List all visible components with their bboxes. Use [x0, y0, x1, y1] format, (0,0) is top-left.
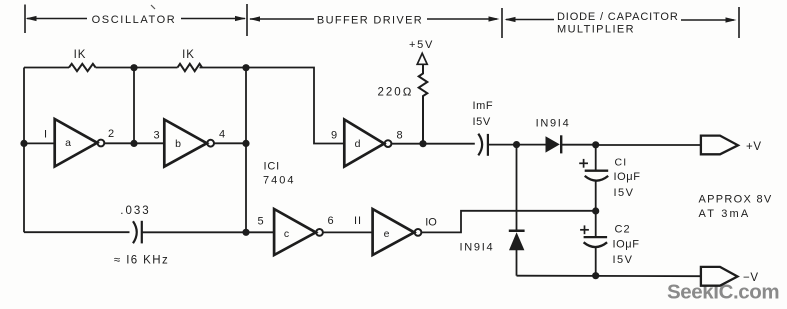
svg-text:ICI: ICI	[264, 161, 280, 173]
svg-text:IK: IK	[74, 49, 87, 61]
svg-text:I5V: I5V	[473, 116, 491, 128]
dimension arrow multiplier right	[681, 17, 737, 22]
wire D1 to C1 node	[562, 144, 596, 146]
svg-text:I5V: I5V	[614, 187, 635, 199]
svg-text:5: 5	[257, 216, 263, 228]
svg-text:220Ω: 220Ω	[377, 87, 413, 99]
inverter U1b	[164, 120, 207, 167]
connector +V	[701, 136, 738, 155]
wire C3 output	[488, 144, 546, 146]
diode D2 1N914	[509, 232, 524, 250]
connector -V	[701, 267, 738, 286]
capacitor C3 1mF	[478, 134, 488, 156]
svg-text:6: 6	[327, 215, 333, 227]
svg-text:II: II	[354, 215, 362, 227]
node gate a out / rail	[130, 140, 137, 147]
dimension arrow oscillator left	[26, 16, 88, 21]
node gate b out / rail	[242, 140, 249, 147]
capacitor .033	[133, 221, 142, 244]
resistor R1 1K	[69, 64, 96, 71]
inverter U1d	[344, 120, 384, 167]
svg-text:OSCILLATOR: OSCILLATOR	[92, 14, 177, 26]
inverter U1c	[274, 209, 316, 255]
wire diode branch vertical upper	[516, 145, 518, 230]
wire C1 bottom lead	[595, 181, 597, 211]
inverter U1b bubble	[207, 140, 214, 147]
stray scan mark	[151, 5, 155, 9]
svg-text:C2: C2	[615, 223, 631, 235]
svg-text:IO: IO	[425, 217, 437, 229]
svg-text:8: 8	[396, 130, 402, 142]
dimension arrow buffer right	[427, 16, 500, 21]
wire gate e output to C1-C2 node	[421, 211, 592, 233]
svg-text:IN9I4: IN9I4	[460, 241, 495, 253]
capacitor C1 plus sign	[579, 159, 588, 168]
wire gate c output to gate e input	[323, 231, 373, 233]
node R2 output junction	[242, 64, 249, 71]
resistor 220 ohm with leads	[419, 64, 428, 143]
inverter U1a bubble	[98, 140, 105, 147]
node 220 ohm junction	[419, 140, 426, 147]
inverter U1a	[55, 119, 97, 167]
svg-text:3: 3	[153, 129, 159, 141]
svg-text:a: a	[65, 137, 71, 149]
node diode branch	[513, 141, 520, 148]
svg-text:+V: +V	[746, 141, 762, 153]
svg-text:−V: −V	[743, 272, 759, 284]
node C1 top	[592, 141, 599, 148]
svg-text:BUFFER DRIVER: BUFFER DRIVER	[317, 14, 423, 26]
wire between R1 and R2	[96, 67, 178, 69]
wire feedback rail gate b output	[245, 68, 247, 233]
svg-text:2: 2	[108, 128, 114, 140]
svg-text:d: d	[355, 138, 361, 150]
svg-text:APPROX 8V: APPROX 8V	[699, 194, 773, 206]
svg-text:ImF: ImF	[473, 100, 494, 112]
svg-text:DIODE / CAPACITOR: DIODE / CAPACITOR	[557, 11, 679, 23]
svg-text:b: b	[175, 138, 181, 150]
svg-text:I: I	[44, 129, 47, 141]
svg-text:IK: IK	[182, 49, 195, 61]
wire top rail left span	[24, 67, 69, 69]
wire gate b output	[214, 142, 246, 144]
svg-text:c: c	[284, 228, 289, 240]
svg-text:I5V: I5V	[613, 254, 634, 266]
wire C1 top lead	[595, 145, 597, 171]
dimension tick oscillator/buffer	[246, 4, 248, 36]
capacitor C2 plus sign	[580, 225, 589, 234]
diode D2 cathode bar	[509, 230, 525, 233]
dimension arrow multiplier left	[505, 17, 555, 22]
wire bottom rail	[517, 275, 702, 278]
wire C2 top lead	[595, 211, 597, 237]
svg-text:MULTIPLIER: MULTIPLIER	[557, 23, 635, 35]
wire diode branch vertical lower	[516, 250, 518, 276]
node mid	[592, 207, 599, 214]
dimension arrow oscillator right	[181, 16, 246, 21]
svg-text:IOμF: IOμF	[613, 238, 640, 250]
wire gate d output	[391, 143, 474, 145]
diode D1 cathode bar	[560, 135, 562, 153]
svg-text:.033: .033	[120, 205, 150, 217]
dimension tick right	[738, 7, 740, 38]
svg-text:e: e	[384, 228, 390, 240]
wire to +V connector	[596, 144, 701, 146]
wire bottom oscillator left	[24, 231, 130, 233]
node bottom rail	[592, 272, 599, 279]
svg-text:9: 9	[331, 130, 337, 142]
svg-text:CI: CI	[615, 156, 628, 168]
dimension tick buffer/multiplier	[501, 8, 503, 38]
svg-text:IOμF: IOμF	[614, 171, 641, 183]
+5V supply arrow	[417, 53, 427, 64]
wire bottom oscillator right to gate c input	[142, 231, 274, 233]
svg-text:IN9I4: IN9I4	[536, 117, 571, 129]
svg-text:+5V: +5V	[409, 39, 434, 51]
dimension arrow buffer left	[249, 16, 314, 21]
wire left rail	[23, 68, 25, 233]
inverter U1d bubble	[385, 140, 392, 147]
svg-text:4: 4	[219, 129, 225, 141]
inverter U1c bubble	[316, 229, 323, 236]
dimension tick left	[24, 5, 26, 34]
wire gate a input	[24, 142, 55, 144]
node gate a input	[20, 140, 27, 147]
resistor R2 1K	[178, 64, 203, 71]
svg-text:AT 3mA: AT 3mA	[699, 208, 751, 220]
capacitor C2	[584, 237, 608, 247]
wire top rail with corner to gate d input	[200, 68, 345, 144]
node pin5 junction	[242, 229, 249, 236]
diode D1 1N914	[546, 136, 560, 152]
svg-text:7404: 7404	[263, 175, 295, 187]
inverter U1e	[373, 209, 415, 255]
svg-text:≈ I6 KHz: ≈ I6 KHz	[114, 254, 169, 266]
node R1-R2 junction	[130, 64, 137, 71]
capacitor C1	[585, 171, 609, 181]
wire gate a output to gate b input	[104, 142, 164, 144]
inverter U1e bubble	[415, 229, 422, 236]
wire C2 bottom lead	[595, 247, 597, 275]
wire feedback rail gate a output	[133, 68, 135, 144]
